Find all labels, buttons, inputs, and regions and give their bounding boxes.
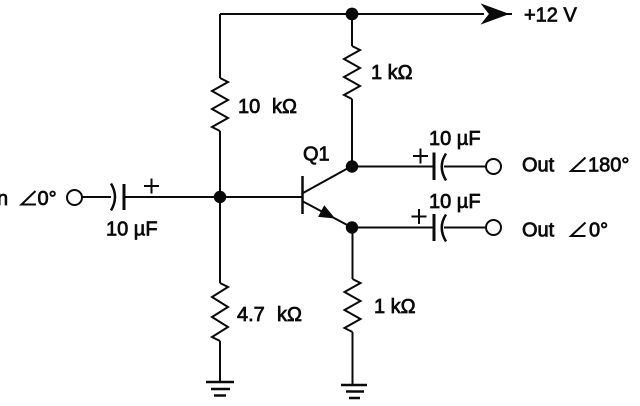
- input terminal circle: [67, 190, 82, 205]
- resistor R4 1 kOhm zigzag: [345, 279, 361, 332]
- angle symbol out 0: [571, 223, 586, 237]
- svg-text:kΩ: kΩ: [272, 96, 297, 118]
- junction dot input node: [214, 191, 226, 203]
- svg-text:Out: Out: [522, 155, 555, 177]
- wire C2 to out terminal 180: [444, 166, 486, 168]
- +12V supply arrow head: [482, 5, 508, 24]
- svg-text:10: 10: [238, 96, 260, 118]
- transistor Q1 collector stroke: [303, 167, 351, 194]
- wire left branch top (rail to R1): [219, 14, 221, 78]
- junction dot top rail: [346, 8, 359, 21]
- wire emitter node down to R4: [352, 228, 354, 280]
- out terminal circle 0: [486, 220, 501, 235]
- plus sign C3: [412, 209, 427, 224]
- capacitor C3 curved plate: [442, 215, 446, 242]
- svg-text:10 µF: 10 µF: [429, 128, 481, 150]
- wire R2 bottom to ground: [219, 341, 221, 382]
- capacitor C2 curved plate: [442, 154, 446, 181]
- wire R1 bottom to input node: [219, 131, 221, 197]
- angle symbol input: [22, 191, 37, 205]
- plus sign C1: [144, 179, 159, 194]
- svg-text:0°: 0°: [589, 220, 608, 242]
- svg-text:n: n: [0, 188, 8, 210]
- svg-text:+12 V: +12 V: [524, 5, 577, 27]
- ground left: [206, 382, 234, 396]
- svg-text:1 kΩ: 1 kΩ: [374, 296, 416, 318]
- svg-text:0°: 0°: [38, 188, 57, 210]
- wire R3 bottom to collector node: [351, 99, 353, 167]
- capacitor C3 straight plate: [433, 214, 436, 241]
- capacitor C1 straight plate: [123, 184, 126, 210]
- junction dot collector node: [346, 160, 358, 172]
- wire input terminal to C1: [82, 196, 111, 198]
- junction dot emitter node: [346, 221, 358, 233]
- svg-text:10 µF: 10 µF: [106, 219, 158, 241]
- svg-text:1 kΩ: 1 kΩ: [371, 62, 413, 84]
- svg-text:4.7: 4.7: [237, 304, 265, 326]
- wire C1 to input node: [124, 196, 220, 198]
- resistor R1 10 kOhm zigzag: [212, 78, 228, 131]
- wire C3 to out terminal 0: [444, 227, 486, 229]
- wire emitter node to C3: [352, 227, 433, 229]
- wire +12V arrow tail: [503, 13, 512, 15]
- transistor Q1 base bar: [301, 176, 304, 214]
- transistor Q1 emitter arrow head: [319, 206, 334, 218]
- wire top rail: [220, 13, 484, 15]
- svg-text:Out: Out: [522, 220, 555, 242]
- transistor Q1 emitter stroke: [303, 202, 351, 228]
- capacitor C1 curved plate: [111, 184, 115, 211]
- plus sign C2: [413, 149, 428, 164]
- angle symbol out 180: [571, 158, 586, 172]
- wire R4 bottom to ground: [352, 332, 354, 385]
- ground right: [341, 385, 367, 398]
- wire collector node to C2: [352, 166, 433, 168]
- capacitor C2 straight plate: [433, 153, 436, 181]
- svg-text:10 µF: 10 µF: [429, 191, 481, 213]
- svg-text:kΩ: kΩ: [277, 304, 302, 326]
- resistor R3 1 kOhm zigzag: [344, 46, 360, 99]
- out terminal circle 180: [486, 159, 501, 174]
- svg-text:180°: 180°: [588, 155, 629, 177]
- wire input node down to R2: [219, 197, 221, 283]
- wire input node to base: [220, 196, 302, 198]
- wire rail to R3: [351, 14, 353, 46]
- resistor R2 4.7 kOhm zigzag: [212, 283, 228, 341]
- svg-text:Q1: Q1: [303, 144, 330, 166]
